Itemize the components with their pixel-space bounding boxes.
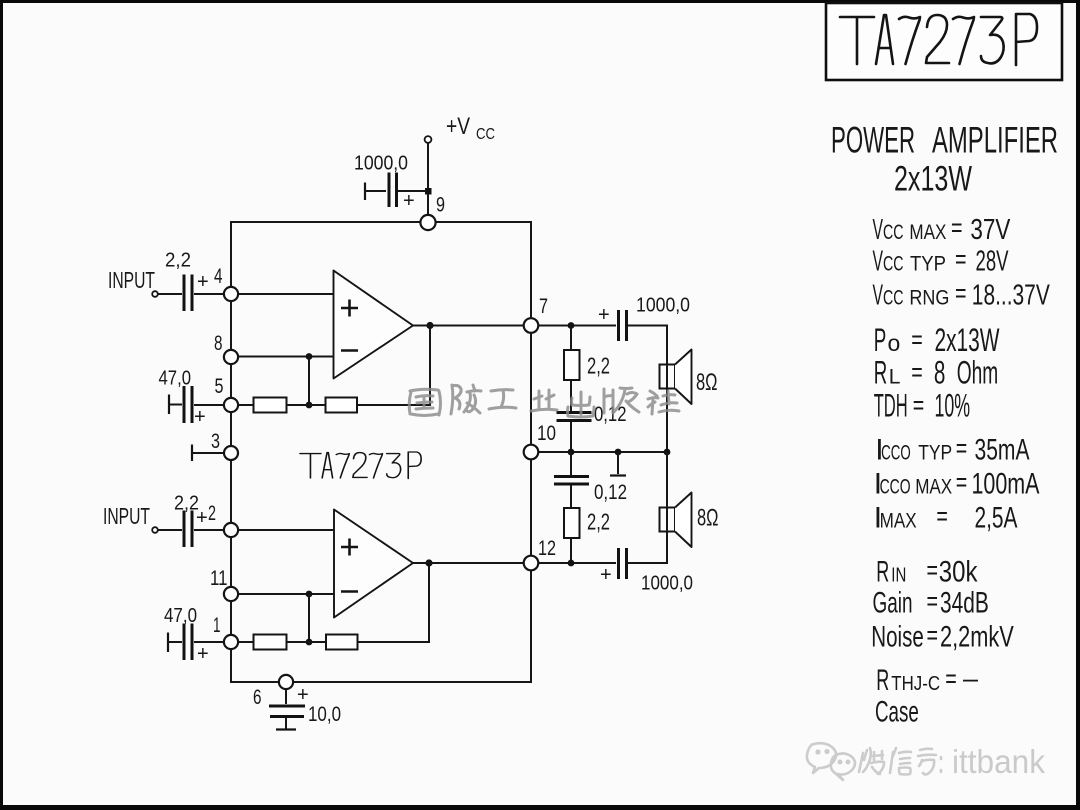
svg-text:+: + [194, 406, 206, 428]
svg-text:28V: 28V [976, 245, 1009, 277]
watermark char HAO [918, 749, 936, 775]
input terminal 1 [152, 291, 158, 297]
wire junction down [308, 357, 310, 406]
junction fb1b [306, 402, 313, 409]
capacitor C5 47,0 [167, 633, 169, 653]
svg-text:CC: CC [476, 126, 495, 143]
svg-text:5: 5 [215, 375, 224, 398]
wire Vcc vertical [427, 143, 429, 215]
svg-text:18...37V: 18...37V [972, 279, 1050, 311]
svg-text:TDH: TDH [874, 387, 908, 423]
speaker LS2 [660, 508, 676, 532]
svg-text:6: 6 [253, 686, 262, 709]
wire pin4 to opamp1 + [239, 293, 333, 295]
svg-text:100mA: 100mA [972, 467, 1040, 500]
svg-text:MAX: MAX [909, 221, 946, 244]
wire C3 to pin 5 [194, 404, 223, 406]
svg-text:–: – [963, 664, 978, 694]
wire input2 to C4 [158, 529, 182, 531]
svg-text:=: = [911, 325, 923, 355]
node pin 10 [524, 445, 539, 460]
capacitor C8 0,12 (zobel 1) [570, 380, 572, 411]
svg-text:INPUT: INPUT [108, 267, 155, 293]
title text TA7273P [840, 14, 1037, 65]
svg-text:CC: CC [883, 286, 904, 309]
svg-text:7: 7 [539, 295, 548, 318]
svg-text:12: 12 [538, 537, 556, 560]
svg-text:1: 1 [213, 614, 221, 637]
svg-text:+: + [403, 190, 415, 212]
svg-text:INPUT: INPUT [103, 503, 150, 529]
svg-text:L: L [889, 366, 901, 389]
wire opamp1 out to pin 7 [413, 325, 523, 327]
svg-text:=: = [955, 278, 967, 308]
speaker LS1 [660, 365, 676, 389]
frame border bottom [0, 805, 1080, 810]
svg-text:TYP: TYP [910, 252, 946, 275]
svg-text:3: 3 [211, 430, 220, 453]
svg-text:34dB: 34dB [940, 587, 989, 620]
resistor R3 [254, 635, 287, 650]
svg-text:Ohm: Ohm [957, 355, 999, 391]
IC label TA7273P [300, 452, 421, 479]
svg-text:CCO: CCO [880, 475, 911, 498]
wire pin7 rail [539, 325, 616, 327]
watermark char SHE [648, 391, 679, 414]
op-amp A1 [334, 271, 414, 379]
svg-text:V: V [873, 214, 884, 246]
svg-text:ittbank: ittbank [952, 743, 1045, 780]
svg-text:0,12: 0,12 [594, 481, 627, 504]
svg-text:Case: Case [875, 695, 919, 728]
junction fb1a [306, 353, 313, 360]
svg-text:R: R [874, 355, 888, 391]
watermark char YE [531, 390, 557, 411]
resistor R4 [326, 635, 358, 650]
svg-text:2,2mkV: 2,2mkV [940, 620, 1014, 653]
node pin 3 [224, 446, 238, 460]
svg-text:+: + [598, 304, 610, 326]
wire C5 to pin 1 [194, 641, 223, 643]
capacitor C4 2,2 input coupling [184, 511, 192, 548]
svg-text:=: = [911, 357, 923, 387]
svg-text:8: 8 [214, 332, 223, 355]
svg-text:=: = [927, 555, 939, 585]
svg-text:2x13W: 2x13W [935, 322, 1001, 358]
junction output 2 [425, 559, 432, 566]
svg-text:+: + [297, 684, 309, 706]
node pin 12 [524, 556, 539, 571]
wire R3 to R4 [287, 641, 327, 643]
frame border left [0, 0, 3, 810]
resistor R6 2,2 (zobel 2) [564, 508, 580, 538]
watermark char WEI [859, 748, 884, 774]
node pin 2 [224, 523, 238, 537]
svg-text:1000,0: 1000,0 [641, 572, 693, 595]
op-amp A2 [334, 510, 413, 618]
svg-text:2,2: 2,2 [165, 250, 191, 272]
svg-text:MAX: MAX [915, 475, 952, 498]
svg-text:8: 8 [934, 355, 946, 391]
svg-text:37V: 37V [970, 214, 1011, 246]
svg-text:10,0: 10,0 [308, 703, 341, 726]
svg-text:CCO: CCO [881, 441, 911, 464]
junction Vcc/C1 [425, 188, 432, 195]
watermark char GONG [489, 390, 516, 409]
wire pin12 rail [539, 562, 616, 564]
resistor R1 [254, 398, 287, 413]
capacitor C11 1000,0 output 2 [619, 548, 627, 579]
frame border top [0, 0, 1080, 3]
junction fb2b [306, 639, 313, 646]
wire R1 to R2 [287, 404, 326, 406]
junction rail10 a [568, 449, 575, 456]
svg-text:47,0: 47,0 [164, 605, 197, 627]
svg-text:Noise: Noise [871, 620, 924, 653]
watermark char GUO [409, 389, 440, 415]
watermark colon [940, 757, 943, 772]
svg-text:2,2: 2,2 [587, 509, 610, 535]
junction output 1 [426, 322, 433, 329]
svg-text:0,12: 0,12 [594, 403, 627, 426]
svg-text:2x13W: 2x13W [894, 160, 972, 199]
capacitor C10 0,12 (zobel 2) [570, 452, 572, 475]
svg-text:THJ-C: THJ-C [891, 673, 940, 695]
junction rail12 [568, 560, 575, 567]
svg-text:+: + [600, 564, 612, 586]
node pin 11 [224, 587, 238, 601]
svg-text:2: 2 [208, 502, 216, 525]
capacitor C9 0,12 stub [617, 452, 619, 474]
svg-text:2,2: 2,2 [587, 353, 610, 379]
svg-text:=: = [955, 244, 967, 274]
svg-text:11: 11 [210, 567, 228, 590]
svg-text:P: P [874, 322, 887, 358]
IC U1 TA7273P body [231, 222, 531, 682]
wire pin11 to opamp2 - [239, 593, 334, 595]
power terminal +Vcc [425, 136, 432, 143]
resistor R2 [326, 398, 358, 413]
svg-text:9: 9 [436, 194, 445, 217]
capacitor C7 1000,0 output [619, 310, 627, 341]
node pin 1 [224, 635, 238, 649]
svg-text:=: = [956, 433, 968, 463]
wire pin5 to R1 [239, 404, 253, 406]
svg-text:Gain: Gain [873, 587, 913, 620]
wire C2 to pin 4 [194, 293, 223, 295]
svg-text:=: = [913, 390, 925, 420]
svg-text:+V: +V [446, 113, 470, 140]
svg-text:CC: CC [883, 252, 904, 275]
svg-text:4: 4 [214, 265, 223, 288]
node pin 7 [524, 318, 539, 333]
svg-text:=: = [951, 213, 963, 243]
svg-text:35mA: 35mA [975, 433, 1030, 466]
resistor R5 2,2 (zobel 1) [570, 326, 572, 351]
wechat icon [807, 743, 855, 780]
svg-text:8Ω: 8Ω [696, 369, 718, 396]
capacitor C3 47,0 [168, 395, 170, 415]
node pin 8 [224, 350, 238, 364]
capacitor C2 2,2 input coupling [184, 275, 192, 312]
svg-text:10%: 10% [935, 387, 971, 423]
svg-text:8Ω: 8Ω [697, 505, 719, 532]
svg-text:=: = [927, 620, 939, 650]
svg-text:POWER: POWER [831, 120, 915, 161]
svg-text:RNG: RNG [909, 286, 949, 309]
node pin 4 [224, 287, 238, 301]
capacitor C1 1000,0 (supply decoupling) [364, 183, 366, 201]
watermark char FANG [451, 385, 481, 414]
input terminal 2 [152, 527, 158, 533]
svg-text:TYP: TYP [918, 441, 952, 464]
wire opamp2 out to pin 12 [413, 562, 523, 564]
wire R4 to feedback 2 [358, 563, 430, 642]
svg-text:R: R [876, 555, 889, 588]
svg-text:30k: 30k [939, 555, 978, 588]
svg-text:o: o [888, 330, 901, 356]
junction rail7/R5 [568, 322, 575, 329]
junction fb2a [306, 591, 313, 598]
svg-text:IN: IN [891, 564, 906, 586]
watermark char XIN [890, 748, 911, 775]
wire pin8 to opamp1 - [239, 356, 333, 358]
wire pin1 to R3 [239, 641, 253, 643]
svg-text:2,5A: 2,5A [975, 502, 1018, 535]
svg-text:+: + [196, 507, 208, 529]
wire R2 to feedback 1 [357, 326, 430, 406]
svg-text:+: + [197, 271, 209, 293]
frame border right [1076, 0, 1080, 810]
watermark char BAN [604, 388, 639, 413]
svg-text:AMPLIFIER: AMPLIFIER [932, 120, 1058, 161]
svg-text:1000,0: 1000,0 [636, 294, 690, 317]
svg-text:47,0: 47,0 [159, 368, 192, 390]
node pin 5 [224, 398, 238, 412]
wire pin2 to opamp2 + [239, 529, 334, 531]
svg-text:=: = [956, 467, 968, 497]
svg-text:+: + [197, 643, 209, 665]
svg-text:10: 10 [537, 422, 556, 445]
watermark char CHU [568, 392, 595, 417]
svg-text:=: = [927, 586, 939, 616]
junction rail10 b [615, 449, 622, 456]
wire input1 to C2 [158, 293, 182, 295]
wire pin10 rail [539, 451, 667, 453]
svg-text:V: V [873, 279, 884, 311]
svg-text:=: = [936, 501, 948, 531]
title box [826, 3, 1062, 80]
wire junction down 2 [308, 594, 310, 642]
wire C4 to pin 2 [194, 529, 223, 531]
svg-text:R: R [876, 664, 889, 697]
pin 3 stub terminal [191, 445, 193, 462]
svg-text:V: V [873, 245, 884, 277]
node pin 6 [279, 675, 293, 689]
svg-text:CC: CC [883, 221, 904, 244]
svg-text:1000,0: 1000,0 [354, 153, 408, 175]
node pin 9 [420, 215, 435, 230]
capacitor C6 10,0 [285, 690, 287, 704]
junction rail10 c [664, 449, 671, 456]
svg-text:=: = [945, 664, 957, 694]
svg-text:MAX: MAX [880, 510, 917, 533]
